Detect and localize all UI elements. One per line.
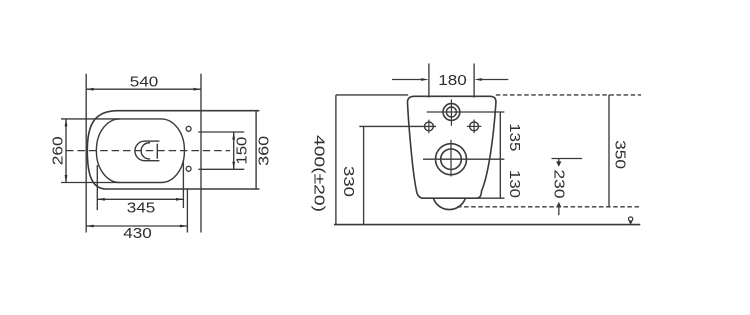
toilet back edge / 360 dim line — [255, 111, 257, 189]
arrow 230 down — [556, 161, 561, 166]
drain symbol: inner arc — [141, 143, 150, 159]
dim 230 lower stem — [558, 204, 560, 215]
130 bottom extension tick — [475, 197, 504, 199]
floor line — [334, 224, 640, 226]
inner rim (seat opening) — [96, 119, 184, 183]
dim 330 line — [363, 126, 365, 224]
dim 430 line — [86, 225, 187, 227]
dim 150 line — [233, 132, 235, 169]
dim 260 bottom tick — [61, 182, 120, 184]
dim 230 upper stem — [558, 159, 560, 163]
dim 350 line — [608, 95, 610, 207]
svg-text:150: 150 — [234, 137, 250, 165]
svg-text:540: 540 — [130, 75, 159, 91]
arrow 345 left — [97, 198, 105, 201]
dim 180 right arrow line — [481, 79, 508, 81]
dashed centerline — [66, 150, 230, 152]
dim 430 right extension — [186, 189, 188, 233]
arrow 345 right — [176, 198, 184, 201]
top reference line solid — [336, 94, 408, 96]
svg-text:430: 430 — [123, 226, 152, 242]
dim 180 right extension — [473, 64, 475, 98]
dim 400 line — [335, 95, 337, 225]
bolt hole right — [470, 122, 479, 131]
arrow 180 pointing left — [474, 78, 482, 81]
drain symbol: bottom line — [145, 160, 160, 162]
arrow 150 down — [232, 162, 235, 170]
drain symbol: vertical tick — [156, 144, 158, 159]
drain horizontal line / 135-130 middle extension — [423, 158, 504, 160]
toilet outer outline (top view) — [87, 111, 259, 189]
extension line left (540/430) — [85, 74, 87, 233]
water inlet circle inner — [446, 107, 456, 117]
drain symbol: top line — [145, 140, 160, 142]
drain bump below body — [433, 198, 465, 209]
svg-text:230: 230 — [551, 170, 567, 199]
arrow 150 up — [232, 132, 235, 140]
svg-text:350: 350 — [611, 140, 627, 169]
mounting hole top — [186, 126, 191, 131]
arrow 230 up — [556, 202, 561, 207]
dim 345 right extension — [182, 160, 184, 208]
drain symbol: outer arc — [135, 141, 145, 161]
drain outlet circle outer — [436, 144, 467, 175]
floor datum symbol triangle — [629, 221, 633, 224]
arrow 430 right — [180, 225, 188, 228]
svg-text:135: 135 — [506, 123, 522, 151]
toilet body rear outline — [407, 96, 495, 198]
dim 180 left arrow line — [392, 79, 422, 81]
dim 345 line — [97, 198, 183, 200]
bolt hole left vertical tick — [428, 120, 430, 134]
arrow 260 up — [65, 119, 68, 127]
dim 260 line — [65, 119, 67, 183]
arrow 430 left — [86, 225, 94, 228]
water inlet circle outer — [443, 104, 460, 121]
330 top extension through left bolt hole — [359, 125, 436, 127]
svg-text:360: 360 — [256, 136, 272, 166]
bottom dashed reference line — [457, 206, 641, 208]
svg-text:130: 130 — [506, 170, 522, 198]
arrow 540 left — [86, 88, 94, 91]
svg-text:330: 330 — [340, 166, 356, 197]
arrow 540 right — [194, 88, 202, 91]
floor datum symbol circle — [629, 217, 633, 221]
dim 260 top tick — [61, 118, 120, 120]
svg-text:260: 260 — [51, 136, 67, 165]
dim 230 top tick — [552, 158, 583, 160]
top reference line dashed — [496, 94, 641, 96]
dim 345 left extension — [96, 165, 98, 210]
drain vertical centerline — [450, 140, 452, 177]
dim 180 left extension — [428, 64, 430, 98]
dim 150 bottom tick — [198, 168, 244, 170]
svg-text:180: 180 — [438, 73, 467, 89]
dimension 540 line — [86, 88, 201, 90]
bolt hole left — [425, 122, 434, 131]
dim 150 top tick — [198, 131, 244, 133]
svg-text:345: 345 — [127, 201, 156, 217]
drain outlet circle inner — [441, 149, 462, 170]
dim line 135/130 — [499, 112, 501, 198]
extension line right of 540 — [200, 74, 202, 233]
arrow 260 down — [65, 175, 68, 183]
bolt hole right horizontal tick — [467, 125, 481, 127]
bolt hole right vertical tick — [473, 120, 475, 134]
arrow 180 pointing right — [421, 78, 429, 81]
mounting hole bottom — [186, 166, 191, 171]
svg-text:400(±20): 400(±20) — [310, 135, 326, 212]
inlet horizontal line / 135 top extension — [427, 111, 505, 113]
inlet vertical centerline — [450, 99, 452, 125]
